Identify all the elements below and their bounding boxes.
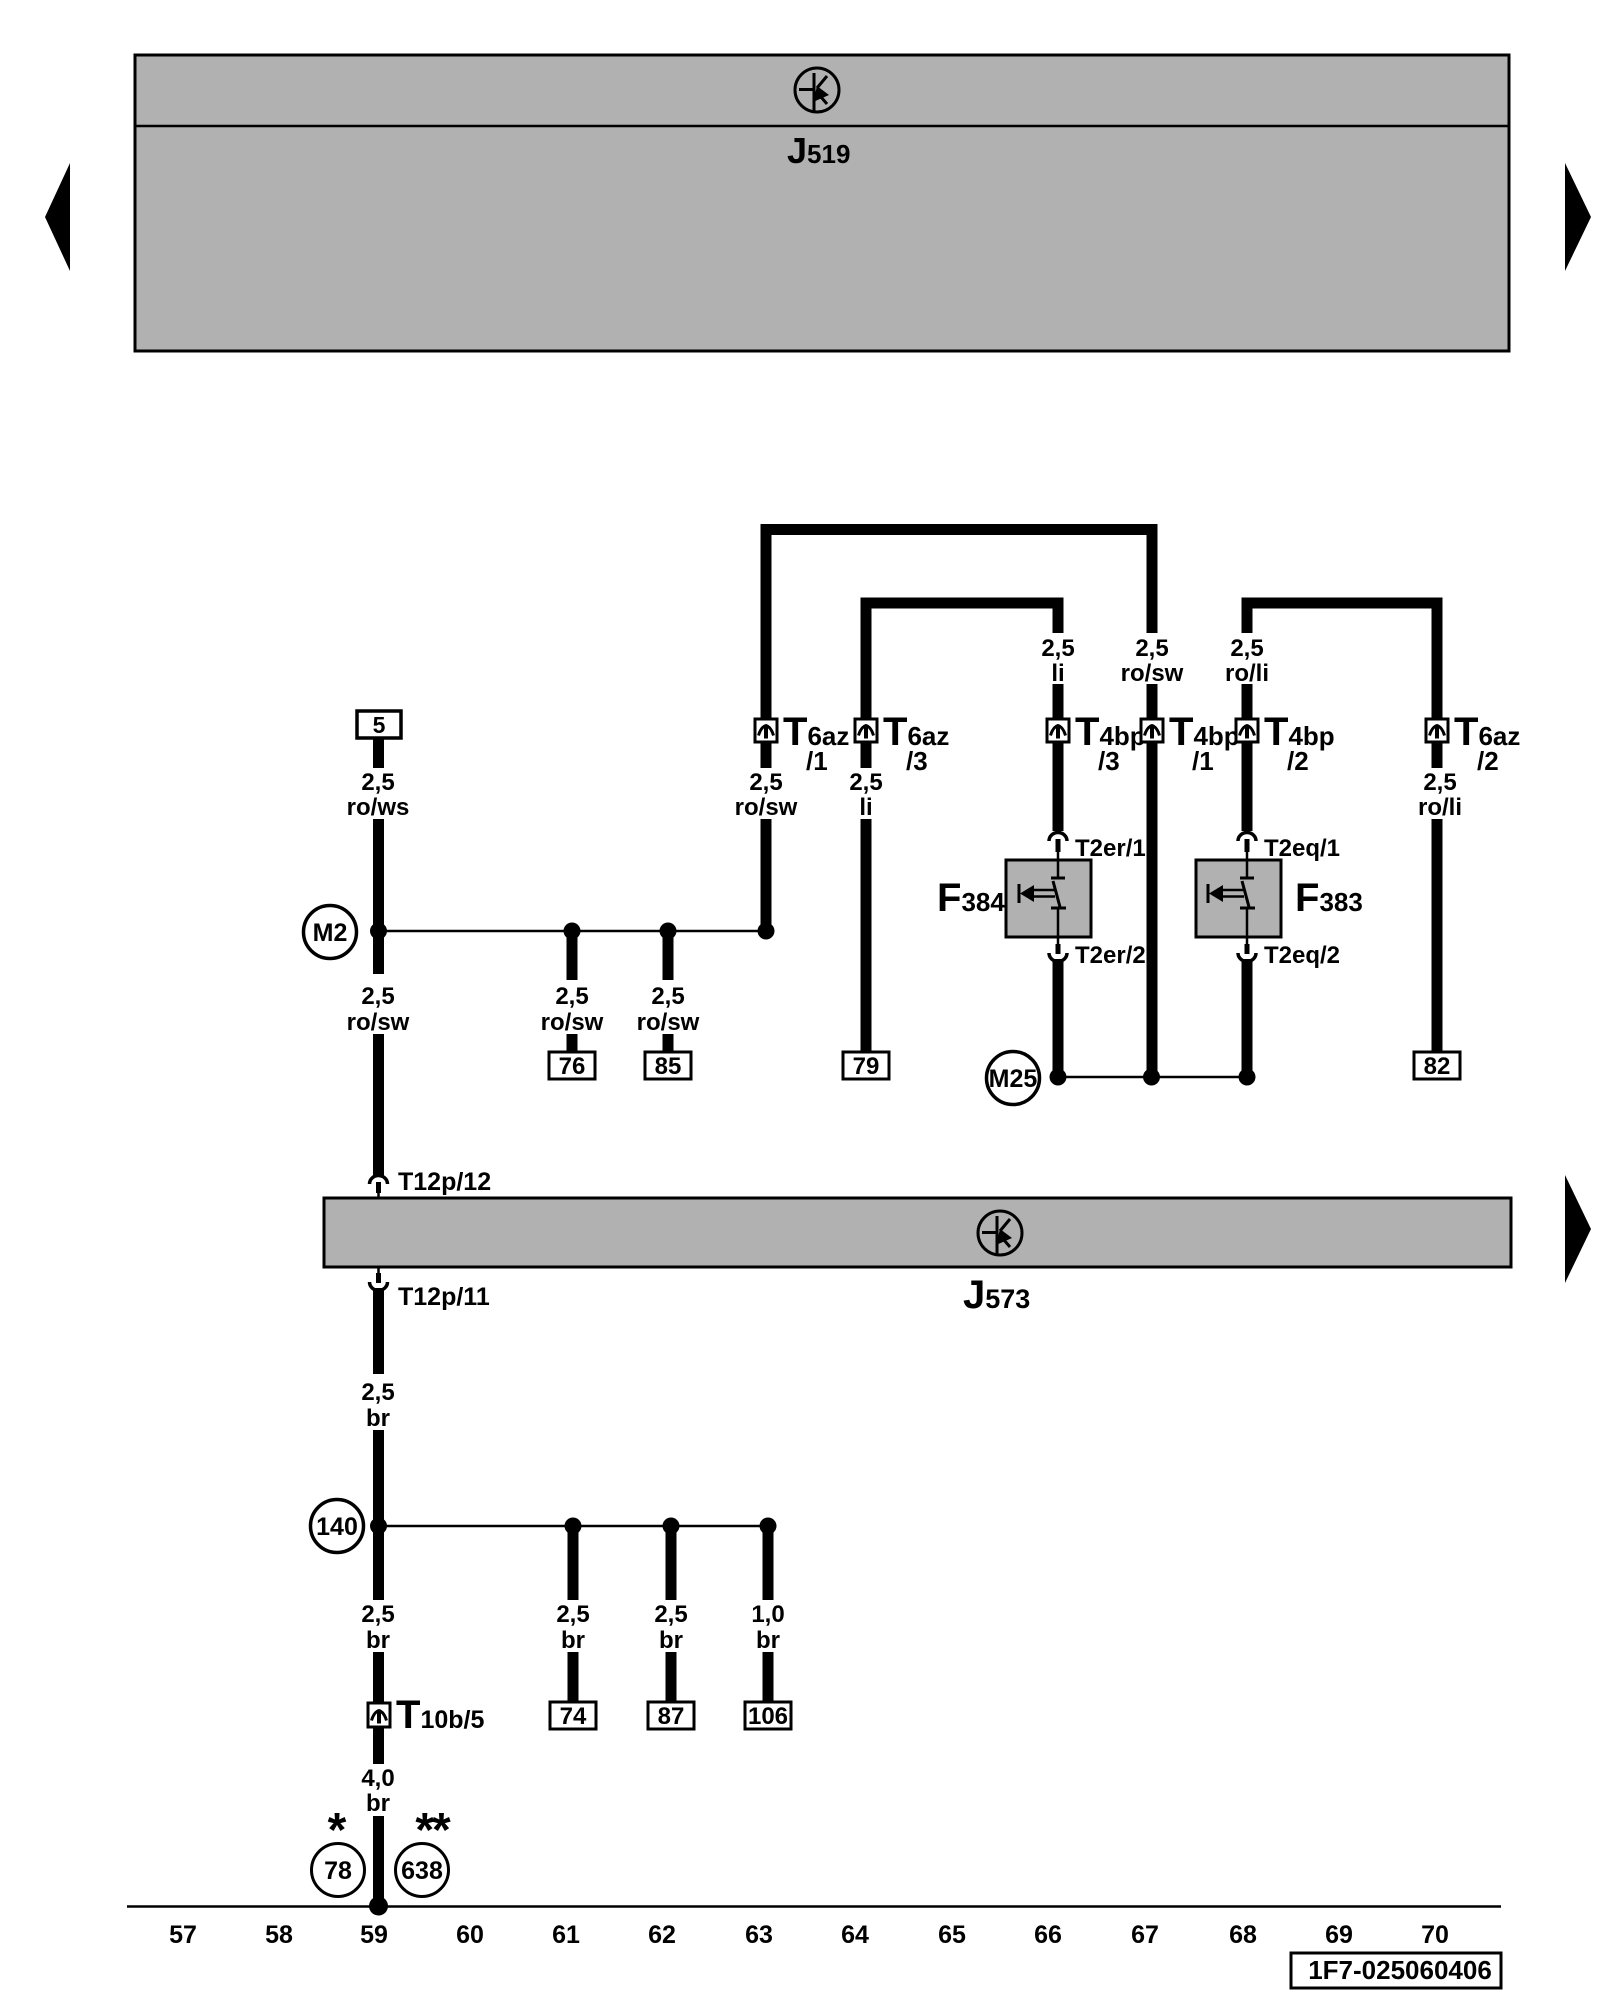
diagram id box xyxy=(1291,1953,1501,1988)
svg-text:J573: J573 xyxy=(963,1273,1030,1317)
svg-text:4,0: 4,0 xyxy=(361,1765,394,1792)
svg-text:65: 65 xyxy=(938,1921,966,1949)
wire branch to 74 xyxy=(568,1526,579,1600)
svg-text:li: li xyxy=(859,794,872,821)
wire to box 82 xyxy=(1432,819,1443,1053)
wire to T10b/5 xyxy=(373,1652,384,1704)
svg-text:ro/sw: ro/sw xyxy=(347,1009,410,1036)
svg-text:67: 67 xyxy=(1131,1921,1159,1949)
wire xyxy=(666,1652,677,1703)
svg-text:F384: F384 xyxy=(937,876,1005,920)
svg-text:2,5: 2,5 xyxy=(749,769,782,796)
svg-text:2,5: 2,5 xyxy=(1135,635,1168,662)
K symbol in J573 xyxy=(978,1211,1022,1255)
wire xyxy=(567,1034,578,1053)
svg-text:61: 61 xyxy=(552,1921,580,1949)
connector T10b/5 xyxy=(368,1693,484,1737)
wire below T6az/1 xyxy=(761,742,772,768)
wire M25 bus line xyxy=(1058,1076,1247,1079)
wire T4bp/1 to M25 line xyxy=(1147,742,1158,1077)
connector T4bp/1 xyxy=(1141,710,1240,776)
connector T6az/1 xyxy=(755,710,849,776)
wire branch to 87 xyxy=(666,1526,677,1600)
svg-text:60: 60 xyxy=(456,1921,484,1949)
svg-text:2,5: 2,5 xyxy=(361,769,394,796)
right continuation arrow top xyxy=(1565,163,1591,271)
connector T4bp/3 xyxy=(1047,710,1146,776)
svg-text:78: 78 xyxy=(324,1857,352,1885)
terminal box 79 xyxy=(843,1052,889,1080)
svg-text:76: 76 xyxy=(559,1053,586,1080)
wire branch to 76 xyxy=(567,931,578,980)
svg-text:62: 62 xyxy=(648,1921,676,1949)
svg-text:2,5: 2,5 xyxy=(1423,769,1456,796)
node 140 xyxy=(311,1500,364,1553)
wire run3 T4bp/2 to T6az/2 xyxy=(1247,603,1437,719)
terminal box 82 xyxy=(1414,1052,1460,1080)
svg-text:ro/ws: ro/ws xyxy=(347,794,410,821)
pin T2eq/1 xyxy=(1238,833,1340,863)
svg-text:69: 69 xyxy=(1325,1921,1353,1949)
sensor F383 xyxy=(1196,860,1281,937)
wire above T4bp/1 xyxy=(1147,684,1158,719)
svg-text:1F7-025060406: 1F7-025060406 xyxy=(1308,1955,1492,1985)
svg-text:66: 66 xyxy=(1034,1921,1062,1949)
svg-text:82: 82 xyxy=(1424,1053,1451,1080)
ground point 638 xyxy=(396,1844,449,1897)
junction dots 140 line xyxy=(370,1518,777,1535)
left continuation arrow xyxy=(45,163,70,271)
connector T6az/3 xyxy=(855,710,949,776)
svg-text:85: 85 xyxy=(655,1053,682,1080)
svg-text:2,5: 2,5 xyxy=(651,983,684,1010)
svg-text:2,5: 2,5 xyxy=(361,983,394,1010)
svg-text:/2: /2 xyxy=(1287,746,1309,776)
control unit J519 box xyxy=(135,55,1509,351)
wire T4bp/2 to F383 xyxy=(1242,742,1253,831)
wire M2 bus line xyxy=(379,930,767,933)
pin T12p/12 xyxy=(370,1168,492,1199)
svg-text:ro/li: ro/li xyxy=(1225,660,1269,687)
wire T2er/2 to M25 line xyxy=(1053,959,1064,1077)
wire above T4bp/3 xyxy=(1053,684,1064,719)
svg-text:2,5: 2,5 xyxy=(361,1379,394,1406)
wire xyxy=(763,1652,774,1703)
terminal box 85 xyxy=(645,1052,691,1080)
svg-text:2,5: 2,5 xyxy=(1230,635,1263,662)
svg-text:2,5: 2,5 xyxy=(361,1601,394,1628)
svg-text:/2: /2 xyxy=(1477,746,1499,776)
bottom grid line xyxy=(127,1905,1501,1908)
svg-text:59: 59 xyxy=(360,1921,388,1949)
svg-text:2,5: 2,5 xyxy=(556,1601,589,1628)
K symbol in J519 xyxy=(795,68,839,112)
node M25 xyxy=(987,1052,1040,1105)
wire to node 140 xyxy=(373,1430,384,1600)
svg-text:5: 5 xyxy=(373,712,386,738)
wire above T4bp/2 xyxy=(1242,684,1253,719)
svg-text:F383: F383 xyxy=(1295,876,1363,920)
svg-text:li: li xyxy=(1051,660,1064,687)
svg-text:2,5: 2,5 xyxy=(849,769,882,796)
terminal box 5 xyxy=(357,711,401,738)
wire T2eq/2 to M25 line xyxy=(1242,959,1253,1077)
connector T4bp/2 xyxy=(1236,710,1335,776)
pin T2er/2 xyxy=(1049,937,1146,969)
terminal box 106 xyxy=(745,1702,791,1730)
wire branch to 106 xyxy=(763,1526,774,1600)
node M2 xyxy=(304,906,357,959)
svg-text:br: br xyxy=(366,1790,390,1817)
wire 140 bus line xyxy=(379,1525,769,1528)
svg-text:br: br xyxy=(659,1627,683,1654)
svg-text:106: 106 xyxy=(748,1703,788,1730)
junction dots M2 line xyxy=(370,923,775,940)
wire run2 T6az/3 to T4bp/3 xyxy=(866,603,1058,719)
svg-text:2,5: 2,5 xyxy=(1041,635,1074,662)
svg-text:ro/sw: ro/sw xyxy=(637,1009,700,1036)
pin T2er/1 xyxy=(1049,833,1146,863)
wire 2,5 ro/ws terminal5 to M2 xyxy=(373,738,384,768)
wire to M2 line xyxy=(761,819,772,931)
svg-text:638: 638 xyxy=(401,1857,443,1885)
svg-text:T2er/1: T2er/1 xyxy=(1075,835,1146,862)
right continuation arrow middle xyxy=(1565,1175,1591,1283)
ground junction dot xyxy=(369,1897,388,1916)
grid numbers xyxy=(169,1921,1449,1949)
wire below T6az/3 xyxy=(861,742,872,768)
pin T12p/11 xyxy=(370,1267,490,1311)
wire 2,5 ro/sw below M2 xyxy=(373,931,384,974)
wire T4bp/3 to F384 xyxy=(1053,742,1064,831)
wire xyxy=(663,1034,674,1053)
svg-text:74: 74 xyxy=(560,1703,587,1730)
junction dots M25 line xyxy=(1050,1069,1256,1086)
ground point 78 xyxy=(312,1844,365,1897)
svg-text:ro/sw: ro/sw xyxy=(735,794,798,821)
pin T2eq/2 xyxy=(1238,937,1340,969)
svg-text:70: 70 xyxy=(1421,1921,1449,1949)
svg-text:br: br xyxy=(366,1405,390,1432)
wire top loop run1 T6az/1 to T4bp/1 xyxy=(766,530,1152,720)
svg-text:64: 64 xyxy=(841,1921,869,1949)
wire xyxy=(373,819,384,931)
svg-text:57: 57 xyxy=(169,1921,197,1949)
svg-text:87: 87 xyxy=(658,1703,685,1730)
svg-text:T12p/11: T12p/11 xyxy=(398,1283,490,1311)
wire branch to 85 xyxy=(663,931,674,980)
svg-text:2,5: 2,5 xyxy=(555,983,588,1010)
svg-text:M25: M25 xyxy=(989,1065,1038,1093)
svg-text:58: 58 xyxy=(265,1921,293,1949)
terminal box 74 xyxy=(550,1702,596,1730)
svg-text:T2eq/2: T2eq/2 xyxy=(1264,942,1340,969)
wire xyxy=(568,1652,579,1703)
wire down to T12p/12 xyxy=(373,1034,384,1177)
svg-text:63: 63 xyxy=(745,1921,773,1949)
svg-text:ro/sw: ro/sw xyxy=(541,1009,604,1036)
wire to box 79 xyxy=(861,819,872,1053)
svg-text:68: 68 xyxy=(1229,1921,1257,1949)
svg-text:M2: M2 xyxy=(313,919,348,947)
svg-text:140: 140 xyxy=(316,1513,358,1541)
wire to ground point xyxy=(373,1816,384,1906)
wire 4,0 br below T10b/5 xyxy=(373,1727,384,1764)
svg-text:/1: /1 xyxy=(806,746,828,776)
control unit J573 bar xyxy=(324,1198,1511,1267)
svg-text:ro/li: ro/li xyxy=(1418,794,1462,821)
svg-text:T2eq/1: T2eq/1 xyxy=(1264,835,1340,862)
svg-text:T2er/2: T2er/2 xyxy=(1075,942,1146,969)
svg-text:br: br xyxy=(366,1627,390,1654)
wire below T6az/2 xyxy=(1432,742,1443,768)
svg-text:br: br xyxy=(756,1627,780,1654)
svg-text:/3: /3 xyxy=(1098,746,1120,776)
svg-text:br: br xyxy=(561,1627,585,1654)
wire 2,5 br below J573 xyxy=(373,1288,384,1374)
connector T6az/2 xyxy=(1426,710,1520,776)
svg-text:ro/sw: ro/sw xyxy=(1121,660,1184,687)
svg-text:79: 79 xyxy=(853,1053,880,1080)
sensor F384 xyxy=(1006,860,1091,937)
svg-text:/3: /3 xyxy=(906,746,928,776)
terminal box 87 xyxy=(648,1702,694,1730)
svg-text:1,0: 1,0 xyxy=(751,1601,784,1628)
svg-text:2,5: 2,5 xyxy=(654,1601,687,1628)
svg-text:/1: /1 xyxy=(1192,746,1214,776)
svg-text:T12p/12: T12p/12 xyxy=(398,1168,491,1196)
svg-text:T10b/5: T10b/5 xyxy=(396,1693,484,1737)
terminal box 76 xyxy=(549,1052,595,1080)
